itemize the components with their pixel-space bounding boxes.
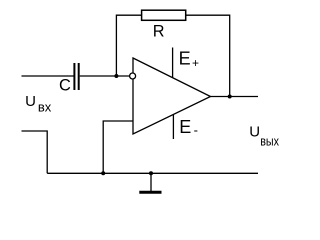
- svg-text:+: +: [192, 56, 199, 70]
- svg-text:U: U: [25, 93, 36, 110]
- ground bar: [139, 191, 161, 194]
- node junction dot at inverting input: [114, 74, 118, 78]
- wire capacitor to inverting input: [80, 75, 130, 77]
- node junction dot at non-inverting branch: [101, 171, 105, 175]
- capacitor C plates: [74, 63, 78, 90]
- svg-text:E: E: [179, 117, 191, 137]
- svg-text:R: R: [153, 23, 165, 41]
- wire resistor to right vertical: [186, 15, 230, 96]
- svg-text:U: U: [249, 124, 260, 141]
- wire input lower stub: [22, 131, 48, 173]
- svg-text:вх: вх: [38, 100, 52, 115]
- E- power pin: [172, 115, 174, 139]
- inversion bubble: [130, 73, 136, 79]
- op-amp U1 triangle: [133, 58, 211, 134]
- wire input top: [22, 75, 74, 77]
- resistor R body: [142, 10, 186, 20]
- wire output: [211, 96, 259, 98]
- ground stem: [150, 173, 152, 191]
- svg-text:вых: вых: [260, 133, 279, 148]
- wire bottom rail: [47, 172, 258, 174]
- wire to non-inverting input: [103, 121, 133, 173]
- svg-text:-: -: [194, 123, 198, 138]
- node junction dot at output: [228, 95, 232, 99]
- svg-text:E: E: [179, 49, 191, 69]
- node junction dot at ground: [149, 171, 153, 175]
- svg-text:C: C: [59, 77, 71, 95]
- wire feedback left vertical: [116, 15, 141, 76]
- E+ power pin: [172, 48, 174, 78]
